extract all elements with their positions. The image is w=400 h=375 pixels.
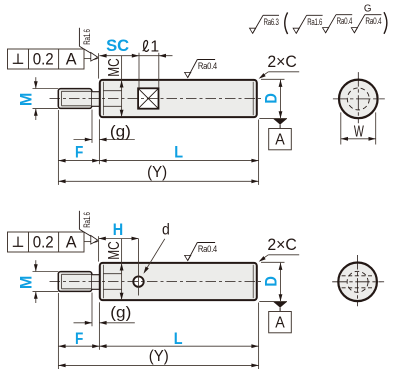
svg-text:2×C: 2×C	[267, 52, 297, 71]
svg-text:Ra0.4: Ra0.4	[198, 244, 217, 254]
svg-text:A: A	[275, 132, 285, 149]
svg-text:(Y): (Y)	[147, 164, 167, 181]
svg-text:(g): (g)	[110, 304, 131, 321]
svg-text:D: D	[262, 93, 281, 104]
svg-text:Ra0.4: Ra0.4	[365, 16, 381, 26]
svg-text:MC: MC	[106, 58, 123, 77]
svg-text:Ra6.3: Ra6.3	[264, 17, 279, 27]
svg-text:A: A	[66, 51, 77, 69]
svg-text:(Y): (Y)	[149, 348, 169, 365]
svg-text:2×C: 2×C	[267, 235, 297, 254]
svg-text:Ra1.6: Ra1.6	[307, 17, 322, 27]
svg-text:D: D	[262, 276, 281, 287]
svg-text:H: H	[113, 220, 123, 239]
svg-text:0.2: 0.2	[33, 234, 54, 252]
svg-text:M: M	[17, 276, 36, 290]
svg-text:W: W	[354, 124, 364, 141]
svg-text:F: F	[75, 329, 83, 348]
svg-text:M: M	[17, 93, 36, 107]
svg-text:Ra0.4: Ra0.4	[337, 16, 353, 26]
svg-text:L: L	[174, 329, 183, 348]
svg-text:SC: SC	[106, 36, 129, 55]
svg-text:G: G	[364, 3, 372, 14]
svg-text:L: L	[174, 143, 183, 162]
svg-text:1: 1	[150, 38, 159, 55]
svg-text:Ra1.6: Ra1.6	[82, 212, 92, 228]
svg-text:Ra0.4: Ra0.4	[198, 61, 217, 71]
svg-text:Ra1.6: Ra1.6	[82, 29, 92, 45]
svg-text:A: A	[66, 234, 77, 252]
svg-text:d: d	[162, 222, 170, 239]
svg-text:(g): (g)	[110, 123, 131, 140]
svg-text:A: A	[275, 315, 285, 332]
svg-text:F: F	[75, 143, 83, 162]
svg-text:0.2: 0.2	[33, 51, 54, 69]
svg-text:MC: MC	[106, 241, 123, 260]
